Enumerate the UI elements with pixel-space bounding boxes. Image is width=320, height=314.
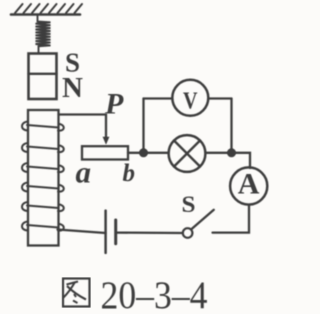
rheostat R body <box>82 146 128 159</box>
spring <box>36 15 51 53</box>
coil turn 3 <box>22 163 64 172</box>
node dot left <box>139 148 148 157</box>
svg-text:S: S <box>182 192 196 218</box>
svg-text:b: b <box>123 160 136 187</box>
voltmeter V circle <box>172 80 208 116</box>
svg-text:a: a <box>76 155 92 190</box>
wire switch to battery <box>116 231 183 234</box>
wire rheostat right to node <box>128 152 144 154</box>
wire left node up <box>142 99 144 153</box>
wire coil top to rheostat arrow <box>59 115 107 139</box>
wire right node to ammeter leg <box>232 153 251 168</box>
coil turn 6 <box>22 222 64 231</box>
svg-text:A: A <box>238 168 260 201</box>
wire battery to coil <box>58 230 106 234</box>
coil turn 2 <box>22 143 64 152</box>
node dot right <box>227 148 236 157</box>
ammeter A circle <box>230 167 267 204</box>
ceiling hatching <box>15 4 82 13</box>
coil turn 1 <box>22 122 64 131</box>
battery short plate <box>114 220 117 244</box>
lamp circle <box>169 135 206 172</box>
lamp cross <box>174 141 200 167</box>
svg-text:V: V <box>183 89 198 115</box>
switch pivot circle <box>183 228 193 238</box>
wire ammeter down to corner <box>213 205 250 233</box>
wire right corner down <box>230 99 232 153</box>
wire lamp to right node <box>206 152 232 154</box>
wire left node to lamp <box>144 152 169 154</box>
magnet divider <box>29 73 57 75</box>
coil turn 4 <box>22 183 64 192</box>
svg-text:20–3–4: 20–3–4 <box>101 274 208 314</box>
caption character 图 drawn as strokes <box>63 279 90 307</box>
ceiling mount line <box>11 13 80 16</box>
switch blade <box>191 210 214 230</box>
svg-text:N: N <box>62 72 83 104</box>
wire voltmeter to right corner <box>209 97 232 99</box>
wire node to voltmeter <box>144 97 173 99</box>
solenoid coil body <box>28 110 59 246</box>
magnet body <box>29 54 57 100</box>
arrowhead P slider <box>103 137 110 145</box>
svg-text:P: P <box>104 88 124 121</box>
coil turn 5 <box>22 202 64 211</box>
battery long plate <box>104 211 107 253</box>
